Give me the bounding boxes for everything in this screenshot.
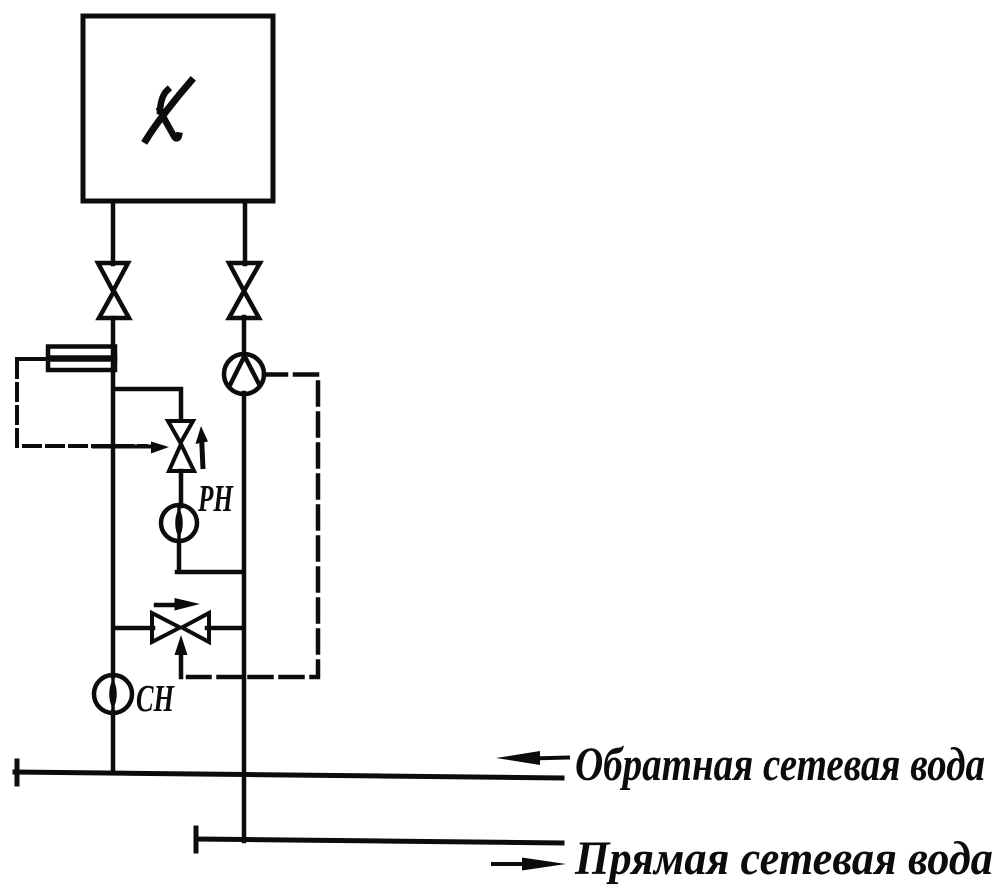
svg-text:Прямая сетевая вода: Прямая сетевая вода — [574, 832, 993, 885]
svg-text:PH: PH — [197, 478, 234, 520]
svg-text:CH: CH — [136, 678, 175, 720]
svg-text:Обратная сетевая вода: Обратная сетевая вода — [575, 738, 985, 791]
